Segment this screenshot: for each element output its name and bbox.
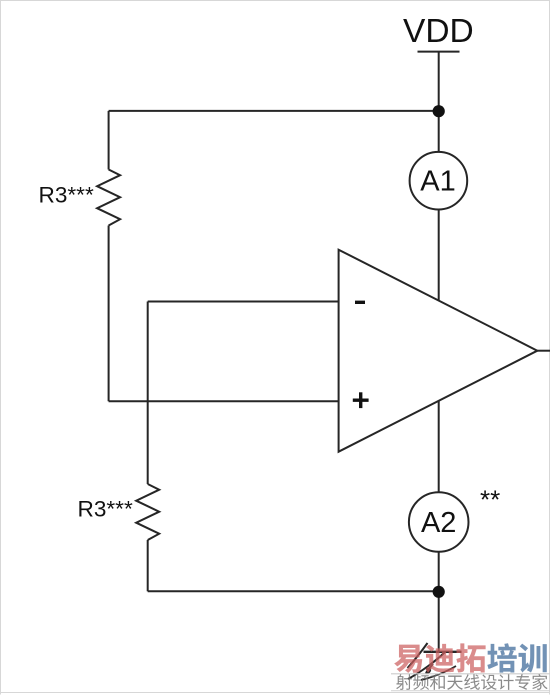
wire: A2 bottom through junction to ground — [438, 552, 440, 652]
watermark box bottom edge line — [391, 690, 550, 692]
resistor R3*** (upper) zigzag — [97, 170, 120, 226]
watermark char tuo (拓) — [456, 643, 485, 672]
wire: A1 bottom down through op-amp to A2 top — [438, 210, 440, 493]
watermark char xun (训) — [519, 644, 547, 673]
wire: middle branch vertical down to lower resistor — [147, 302, 149, 485]
node junction top — [433, 105, 445, 117]
watermark subtitle char zhuan (专) — [515, 674, 530, 690]
wire: lower branch vertical to bottom rail — [147, 540, 149, 591]
svg-text:A1: A1 — [420, 166, 455, 198]
wire: plus input horizontal — [109, 400, 340, 402]
op-amp plus symbol — [353, 392, 369, 408]
svg-text:R3***: R3*** — [39, 183, 94, 208]
watermark subtitle char he (和) — [430, 674, 445, 689]
watermark subtitle char tian (天) — [447, 676, 463, 690]
watermark subtitle char she (射) — [396, 674, 412, 690]
wire: VDD vertical down to A1 — [438, 52, 440, 152]
watermark subtitle char ji (计) — [498, 674, 514, 690]
watermark subtitle char she2 (设) — [481, 675, 497, 690]
resistor R3*** (lower) zigzag — [136, 484, 159, 540]
wire: VDD rail bar — [418, 51, 460, 53]
svg-text:A2: A2 — [421, 507, 456, 539]
watermark subtitle char xian (线) — [464, 674, 480, 690]
svg-text:**: ** — [480, 485, 500, 515]
wire: minus input horizontal — [148, 301, 340, 303]
watermark char di (迪) — [425, 644, 454, 673]
svg-text:VDD: VDD — [403, 13, 474, 50]
watermark char pei (培) — [487, 643, 516, 672]
watermark placeholder — [391, 643, 550, 690]
watermark char yi (易) — [394, 645, 422, 673]
watermark subtitle char jia (家) — [532, 674, 547, 690]
svg-text:R3***: R3*** — [78, 497, 133, 522]
wire: left branch vertical upper (to resistor R3 top) — [108, 111, 110, 170]
ground — [408, 643, 462, 680]
node junction bottom — [433, 586, 445, 598]
wire: top horizontal from left branch to VDD junction — [109, 110, 439, 112]
wire: op-amp output stub — [537, 350, 550, 352]
ammeter A2 circle — [409, 492, 469, 552]
watermark subtitle char pin (频) — [413, 674, 429, 690]
watermark box top edge line — [391, 673, 550, 675]
wire: left branch vertical lower (resistor bottom to + corner) — [108, 226, 110, 402]
ammeter A1 circle — [410, 152, 468, 210]
op-amp U1 triangle — [339, 250, 538, 452]
wire: bottom horizontal to junction — [148, 590, 439, 592]
op-amp minus symbol — [355, 301, 365, 304]
